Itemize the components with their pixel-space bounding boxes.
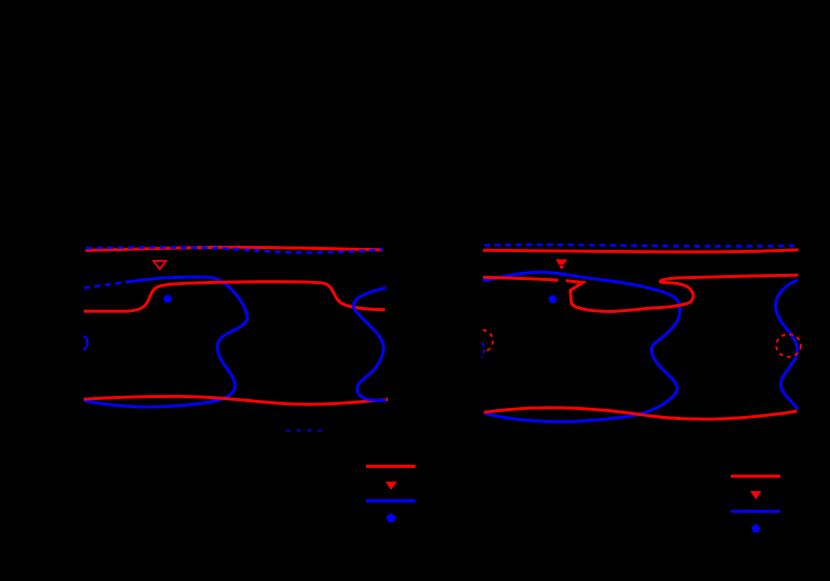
left panel main blue loop dashed lead-in — [84, 282, 130, 288]
right panel blue pentagon marker — [548, 295, 557, 303]
left panel blue pentagon marker — [163, 294, 172, 302]
right panel red filled triangle marker (lower tip) — [559, 266, 565, 270]
right panel blue dashed arc on left axis — [482, 343, 484, 358]
left panel open red triangle marker — [154, 261, 167, 269]
right panel red dashed ellipse on right — [776, 334, 801, 357]
left panel small blue dashes below bottom — [286, 430, 323, 432]
right panel red filled triangle marker (top part) — [556, 259, 568, 264]
right panel top red curve — [483, 250, 799, 252]
left panel mid red curve — [84, 282, 385, 312]
legend 1 blue pentagon marker — [386, 513, 396, 522]
legend 2 red line sample — [731, 475, 780, 478]
right panel top blue dashed curve — [484, 245, 799, 247]
right panel red dashed arc on left axis — [483, 330, 493, 352]
legend 1 red line sample — [366, 465, 416, 468]
left panel top blue dashed curve — [86, 247, 383, 252]
left panel right-side blue S curve — [354, 288, 386, 401]
right panel bottom red curve — [484, 408, 797, 419]
legend 2 blue pentagon marker — [751, 524, 760, 533]
right panel mid red curve left segment — [483, 277, 558, 280]
left panel bottom red curve — [84, 396, 388, 404]
right panel main blue loop curve — [483, 272, 680, 421]
legend 2 blue line sample — [731, 510, 780, 513]
legend 1 red triangle marker — [385, 482, 396, 490]
left panel main blue loop curve — [84, 277, 247, 407]
left panel small blue arc on left axis — [83, 336, 87, 350]
right panel mid red curve with 7-step and left hairpin — [566, 275, 798, 311]
left panel top red curve — [86, 247, 384, 250]
legend 2 red triangle marker — [750, 491, 761, 499]
legend 1 blue line sample — [366, 499, 416, 502]
right panel right-side blue S curve — [776, 280, 799, 409]
